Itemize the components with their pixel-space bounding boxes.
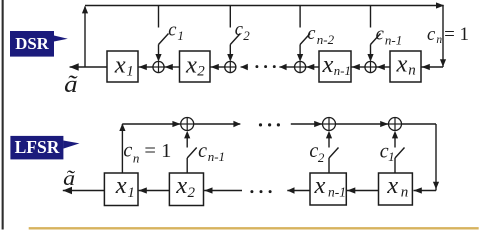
- svg-text:= 1: = 1: [144, 140, 171, 162]
- svg-text:c: c: [427, 25, 436, 45]
- svg-text:1: 1: [388, 149, 395, 164]
- svg-text:c: c: [168, 20, 177, 40]
- svg-text:2: 2: [188, 185, 196, 201]
- svg-text:1: 1: [126, 64, 134, 80]
- svg-text:x: x: [175, 172, 187, 199]
- svg-text:2: 2: [243, 28, 250, 43]
- svg-text:n-1: n-1: [385, 32, 402, 47]
- svg-text:c: c: [307, 24, 316, 44]
- svg-text:n: n: [436, 34, 442, 46]
- svg-text:n-2: n-2: [317, 32, 335, 47]
- svg-text:ã: ã: [64, 72, 78, 98]
- svg-text:2: 2: [318, 150, 325, 165]
- svg-text:n: n: [401, 185, 409, 201]
- svg-text:= 1: = 1: [444, 24, 469, 45]
- svg-text:x: x: [314, 172, 326, 199]
- svg-text:2: 2: [197, 64, 205, 80]
- svg-text:n: n: [133, 150, 140, 165]
- svg-text:x: x: [185, 51, 197, 78]
- svg-text:x: x: [322, 51, 334, 78]
- svg-text:DSR: DSR: [15, 34, 49, 53]
- svg-text:ã: ã: [63, 166, 75, 190]
- svg-text:x: x: [114, 51, 126, 78]
- svg-text:x: x: [115, 172, 127, 199]
- svg-text:1: 1: [127, 185, 134, 201]
- svg-text:c: c: [198, 140, 207, 162]
- svg-text:n: n: [408, 63, 416, 79]
- svg-text:LFSR: LFSR: [15, 137, 60, 157]
- svg-text:n-1: n-1: [328, 185, 346, 200]
- svg-text:x: x: [396, 51, 408, 78]
- svg-text:1: 1: [177, 28, 184, 43]
- svg-text:n-1: n-1: [208, 149, 225, 164]
- svg-text:x: x: [386, 172, 398, 199]
- svg-text:c: c: [123, 140, 132, 162]
- svg-text:n-1: n-1: [334, 64, 351, 78]
- svg-text:c: c: [376, 24, 385, 44]
